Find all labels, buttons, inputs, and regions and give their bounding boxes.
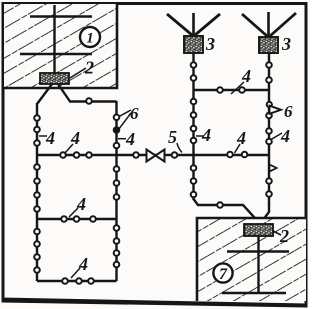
label 2 (bottom-right) leader [273,231,281,235]
receiver box 3b [259,37,278,53]
svg-text:4: 4 [78,254,88,274]
callout circle 7 [213,263,232,283]
label 2 (bottom-right) [279,226,289,246]
mast M1 upper crossbar [30,15,92,18]
frame bottom border [2,298,308,308]
nozzle diamond on riser x=269 [267,102,272,107]
callout circle 1 [80,27,100,47]
frame left border [2,2,5,302]
sprinklers on left riser x=37 [34,115,40,273]
label 2 (top-left) [84,58,94,78]
label 3a [205,34,215,54]
mast M1 lower crossbar [20,53,92,56]
label 6 left leaders [119,110,132,130]
label 4 on riser x=116.5 [118,129,135,149]
sprinkler on header [86,98,92,104]
valve 5 (gate valve bowtie) [147,150,165,162]
pipe: header y=102 [69,100,117,102]
label 6 right [284,102,293,121]
svg-text:6: 6 [130,104,139,123]
sprinklers on riser x=116.5 [114,115,120,268]
pipe: feed riser x=269 [261,53,269,223]
svg-text:4: 4 [236,128,246,148]
label 2 (top-left) leader [70,68,86,78]
pipe: lateral y=281 [37,280,117,282]
building 1 hatched area [4,4,117,88]
sprinklers on lateral y=219 [61,216,96,222]
svg-text:4: 4 [76,194,86,214]
pipe: cross branch y=90 [194,89,270,91]
label 4 on branch y=90 [231,66,251,94]
label 4 on lateral y=219 [69,194,86,217]
pipe: main line y=155 [37,154,270,156]
pipe: device2 down-right diagonal to header [58,84,70,102]
svg-text:4: 4 [201,125,211,145]
sprinklers on lateral y=281 [62,278,94,284]
svg-text:4: 4 [280,126,290,146]
svg-text:2: 2 [84,58,94,78]
sprinkler on branch y=205 [217,202,223,208]
pipe: riser x=116.5 [115,101,117,281]
frame top border [2,2,308,5]
svg-text:4: 4 [241,66,251,86]
svg-text:3: 3 [205,34,215,54]
svg-text:4: 4 [45,128,55,148]
label 4 pointing to main line left [65,128,81,154]
pipe: device2 down-left diagonal [37,84,52,104]
receiver box 3a [184,36,203,53]
label 6 left [130,104,139,123]
label 5 [168,127,177,147]
pipe: left riser x=37 [36,103,38,281]
mast M1 vertical pole [53,5,55,74]
label 5 leader [177,143,182,153]
label 3b [281,34,291,54]
pipe: feed riser x=193.5 [194,53,259,222]
building 7 hatched area [197,218,306,301]
mast M2 upper crossbar [227,250,289,252]
sprinklers on branch y=90 [217,87,245,93]
svg-text:2: 2 [279,226,289,246]
label 4 on feed riser x=193.5 [196,125,211,145]
svg-text:6: 6 [284,102,293,121]
mast M2 vertical pole [257,236,259,293]
sprayer device 2 (top-left) [40,73,69,84]
label 4 on feed riser x=269 [271,126,290,146]
sprinklers on feed riser x=193.5 [191,62,197,197]
label 4 on left riser [39,128,55,148]
antenna mast 3b [242,12,296,37]
sprinklers on main line left [60,152,177,158]
svg-text:1: 1 [86,31,94,47]
svg-text:7: 7 [219,266,228,283]
sprinklers on feed riser x=269 [266,62,272,197]
label 4 on lateral y=281 [71,254,88,278]
sprinklers on main line right [227,152,247,158]
sprayer device 2 (bottom-right) [244,224,273,236]
frame right border [305,2,308,308]
svg-text:4: 4 [125,129,135,149]
label 4 pointing to main line right [235,128,247,153]
svg-text:3: 3 [281,34,291,54]
svg-text:5: 5 [168,127,177,147]
small triangle below main on riser x=269 [270,165,277,172]
mast M2 lower crossbar [222,292,286,294]
hydrant triangle 6 on riser x=269 [270,106,282,114]
pipe: lateral y=219 [37,218,117,220]
svg-text:4: 4 [70,128,80,148]
antenna mast 3a [167,13,220,36]
